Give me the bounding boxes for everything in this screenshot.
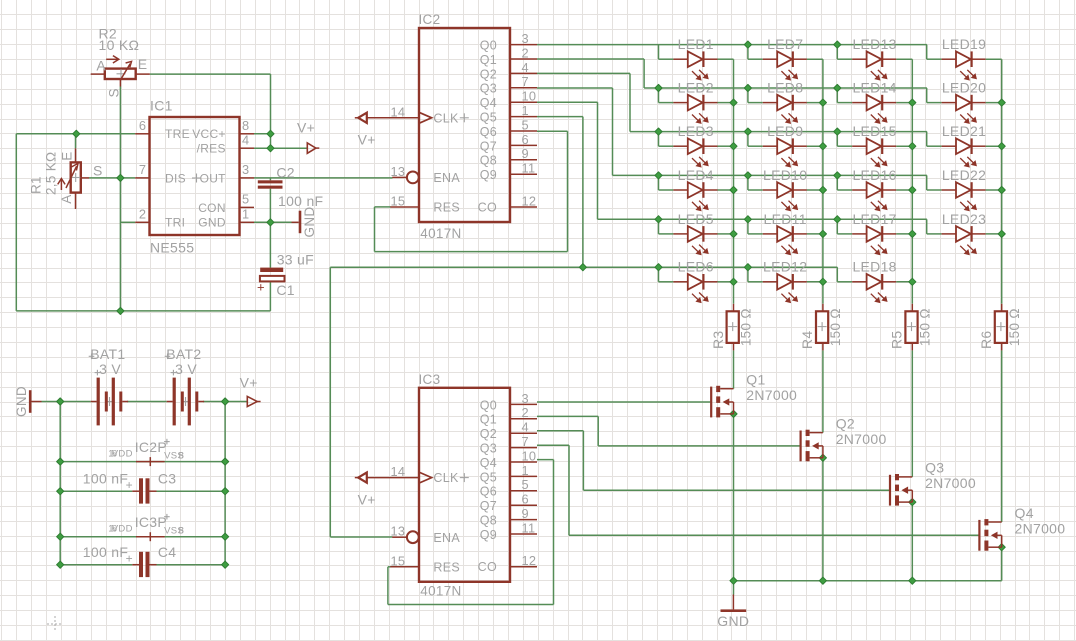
svg-text:NE555: NE555: [150, 240, 194, 256]
svg-text:1: 1: [522, 463, 529, 478]
svg-text:Q4: Q4: [480, 456, 497, 470]
svg-text:Q9: Q9: [480, 528, 497, 542]
svg-text:7: 7: [139, 162, 146, 177]
svg-text:2: 2: [522, 45, 529, 60]
svg-text:2: 2: [522, 405, 529, 420]
svg-text:LED2: LED2: [678, 80, 714, 96]
svg-text:8: 8: [179, 451, 185, 462]
svg-text:Q3: Q3: [480, 82, 497, 96]
svg-text:Q7: Q7: [480, 139, 497, 153]
svg-text:100 nF: 100 nF: [83, 544, 128, 560]
svg-text:BAT2: BAT2: [166, 346, 201, 362]
svg-text:IC2P: IC2P: [135, 439, 167, 455]
svg-text:LED23: LED23: [942, 211, 986, 227]
svg-text:LED19: LED19: [942, 36, 986, 52]
svg-text:10: 10: [522, 89, 537, 104]
svg-text:CO: CO: [478, 560, 497, 574]
svg-text:13: 13: [391, 164, 406, 179]
svg-text:2: 2: [139, 207, 146, 222]
svg-text:CON: CON: [198, 201, 226, 215]
svg-text:2N7000: 2N7000: [836, 431, 887, 447]
svg-text:3: 3: [522, 31, 529, 46]
svg-text:R1: R1: [29, 176, 44, 194]
svg-text:LED10: LED10: [763, 167, 807, 183]
svg-text:5: 5: [242, 192, 249, 207]
svg-text:IC1: IC1: [150, 98, 173, 114]
svg-text:Q5: Q5: [480, 470, 497, 484]
svg-text:A: A: [59, 194, 74, 203]
svg-text:4017N: 4017N: [420, 226, 461, 241]
svg-text:LED22: LED22: [942, 167, 986, 183]
svg-text:13: 13: [391, 524, 406, 539]
svg-text:VCC+: VCC+: [192, 127, 226, 141]
svg-text:9: 9: [522, 146, 529, 161]
svg-text:A: A: [96, 58, 106, 74]
svg-text:11: 11: [522, 520, 536, 535]
svg-text:R6: R6: [978, 331, 994, 350]
svg-text:V+: V+: [358, 132, 376, 148]
svg-text:RES: RES: [433, 561, 460, 575]
svg-text:VDD: VDD: [112, 524, 133, 535]
svg-text:R3: R3: [710, 331, 726, 350]
svg-text:GND: GND: [302, 207, 317, 238]
svg-text:8: 8: [242, 118, 249, 133]
svg-text:GND: GND: [14, 386, 29, 417]
svg-text:V+: V+: [358, 491, 376, 507]
svg-text:Q4: Q4: [480, 96, 497, 110]
svg-text:BAT1: BAT1: [90, 346, 125, 362]
svg-text:VDD: VDD: [112, 448, 133, 459]
svg-text:IC3P: IC3P: [135, 514, 167, 530]
svg-text:RES: RES: [433, 201, 460, 215]
svg-text:+: +: [126, 552, 133, 566]
svg-text:Q1: Q1: [480, 53, 497, 67]
svg-text:LED6: LED6: [678, 259, 714, 275]
svg-text:LED21: LED21: [942, 123, 986, 139]
svg-text:5: 5: [522, 477, 529, 492]
svg-text:S: S: [93, 163, 103, 179]
svg-text:15: 15: [391, 194, 406, 209]
svg-text:6: 6: [522, 492, 529, 507]
svg-text:Q6: Q6: [480, 125, 497, 139]
svg-text:CLK: CLK: [433, 471, 459, 485]
svg-text:E: E: [138, 56, 148, 72]
svg-text:S: S: [106, 88, 121, 97]
svg-text:6: 6: [522, 132, 529, 147]
svg-text:2N7000: 2N7000: [925, 475, 976, 491]
svg-text:LED5: LED5: [678, 211, 714, 227]
svg-text:11: 11: [522, 161, 536, 176]
svg-text:2N7000: 2N7000: [1015, 520, 1066, 536]
svg-text:Q6: Q6: [480, 485, 497, 499]
svg-text:4: 4: [242, 132, 249, 147]
svg-text:LED15: LED15: [852, 123, 896, 139]
svg-text:LED11: LED11: [764, 211, 807, 227]
svg-text:4017N: 4017N: [420, 584, 461, 599]
svg-text:Q8: Q8: [480, 514, 497, 528]
svg-text:Q0: Q0: [480, 39, 497, 53]
svg-text:Q5: Q5: [480, 111, 497, 125]
svg-text:Q9: Q9: [480, 168, 497, 182]
svg-text:7: 7: [522, 434, 529, 449]
svg-text:33 uF: 33 uF: [277, 251, 314, 267]
svg-text:C1: C1: [276, 282, 295, 298]
svg-text:+: +: [126, 478, 133, 492]
svg-text:CO: CO: [478, 200, 497, 214]
svg-text:LED16: LED16: [852, 167, 896, 183]
svg-text:150 Ω: 150 Ω: [739, 308, 754, 346]
svg-text:C3: C3: [158, 470, 177, 486]
svg-text:3 V: 3 V: [175, 361, 197, 377]
svg-text:Q8: Q8: [480, 154, 497, 168]
svg-text:14: 14: [391, 104, 406, 119]
svg-text:12: 12: [522, 193, 537, 208]
svg-text:LED14: LED14: [852, 80, 896, 96]
svg-text:C2: C2: [276, 164, 295, 180]
svg-text:Q2: Q2: [836, 415, 855, 431]
svg-text:150 Ω: 150 Ω: [1007, 308, 1022, 346]
svg-text:100 nF: 100 nF: [83, 470, 128, 486]
svg-text:150 Ω: 150 Ω: [828, 308, 843, 346]
svg-text:OUT: OUT: [200, 171, 227, 185]
svg-text:TRE: TRE: [165, 127, 190, 141]
svg-text:3 V: 3 V: [99, 361, 121, 377]
svg-text:2N7000: 2N7000: [746, 387, 797, 403]
svg-text:6: 6: [139, 118, 146, 133]
svg-text:1: 1: [242, 207, 249, 222]
svg-text:10: 10: [522, 448, 537, 463]
svg-text:LED12: LED12: [763, 259, 807, 275]
svg-text:R5: R5: [889, 331, 905, 350]
svg-text:LED20: LED20: [942, 80, 986, 96]
svg-text:12: 12: [522, 553, 537, 568]
svg-text:TRI: TRI: [165, 216, 185, 230]
svg-text:3: 3: [242, 162, 249, 177]
svg-text:150 Ω: 150 Ω: [918, 308, 933, 346]
svg-text:IC3: IC3: [419, 372, 441, 387]
svg-text:15: 15: [391, 553, 406, 568]
svg-text:LED13: LED13: [852, 36, 896, 52]
svg-text:Q1: Q1: [480, 413, 497, 427]
svg-text:10 KΩ: 10 KΩ: [99, 37, 140, 53]
svg-text:Q3: Q3: [925, 460, 944, 476]
svg-text:/RES: /RES: [197, 142, 226, 156]
svg-text:Q2: Q2: [480, 427, 497, 441]
svg-text:C4: C4: [158, 544, 177, 560]
svg-text:4: 4: [522, 420, 529, 435]
svg-text:LED8: LED8: [767, 80, 803, 96]
svg-text:V+: V+: [297, 120, 315, 136]
svg-text:LED17: LED17: [852, 211, 896, 227]
svg-text:2,5 KΩ: 2,5 KΩ: [44, 152, 59, 195]
svg-text:+: +: [257, 280, 265, 295]
svg-text:14: 14: [391, 464, 406, 479]
svg-text:ENA: ENA: [433, 531, 460, 545]
svg-text:CLK: CLK: [433, 111, 459, 125]
svg-text:Q2: Q2: [480, 67, 497, 81]
svg-text:4: 4: [522, 60, 529, 75]
svg-text:DIS: DIS: [165, 171, 186, 185]
svg-text:Q4: Q4: [1015, 505, 1034, 521]
svg-text:LED1: LED1: [678, 36, 714, 52]
svg-text:LED9: LED9: [767, 123, 803, 139]
svg-text:8: 8: [179, 526, 185, 537]
svg-text:Q1: Q1: [746, 372, 765, 388]
svg-text:LED3: LED3: [678, 123, 714, 139]
svg-text:V+: V+: [240, 375, 258, 391]
svg-text:1: 1: [522, 103, 529, 118]
svg-text:LED4: LED4: [678, 167, 714, 183]
svg-text:9: 9: [522, 506, 529, 521]
svg-text:5: 5: [522, 117, 529, 132]
svg-text:3: 3: [522, 391, 529, 406]
svg-text:IC2: IC2: [419, 12, 441, 27]
svg-text:R4: R4: [799, 331, 815, 350]
svg-text:Q3: Q3: [480, 442, 497, 456]
svg-text:GND: GND: [717, 613, 749, 629]
svg-text:7: 7: [522, 74, 529, 89]
svg-text:ENA: ENA: [433, 171, 460, 185]
svg-text:100 nF: 100 nF: [278, 193, 323, 209]
svg-text:Q7: Q7: [480, 499, 497, 513]
svg-text:E: E: [59, 151, 74, 160]
svg-text:LED18: LED18: [852, 259, 896, 275]
svg-text:GND: GND: [198, 216, 226, 230]
svg-text:Q0: Q0: [480, 398, 497, 412]
svg-text:LED7: LED7: [767, 36, 803, 52]
